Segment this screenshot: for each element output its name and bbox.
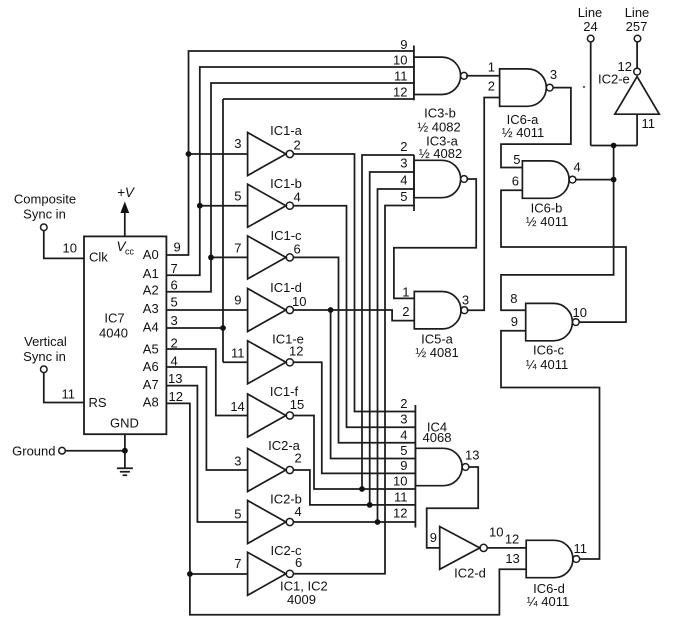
svg-text:11: 11 [62,387,76,402]
svg-text:½ 4082: ½ 4082 [419,146,462,161]
svg-text:3: 3 [171,313,178,328]
svg-text:9: 9 [400,458,407,473]
svg-text:10: 10 [393,53,407,68]
svg-text:13: 13 [465,448,479,463]
svg-text:10: 10 [573,305,587,320]
svg-text:Clk: Clk [89,250,108,265]
svg-text:IC1-f: IC1-f [270,384,299,399]
svg-text:6: 6 [512,174,519,189]
svg-text:2: 2 [402,304,409,319]
svg-text:3: 3 [400,412,407,427]
svg-text:9: 9 [430,530,437,545]
svg-text:A6: A6 [143,359,159,374]
svg-text:2: 2 [171,336,178,351]
svg-text:Line: Line [578,5,603,20]
svg-text:IC1-a: IC1-a [270,123,303,138]
svg-text:10: 10 [489,525,503,540]
svg-text:IC2-d: IC2-d [454,566,486,581]
svg-text:14: 14 [230,399,244,414]
svg-text:8: 8 [510,291,517,306]
svg-text:4040: 4040 [99,326,128,341]
svg-text:9: 9 [511,314,518,329]
svg-text:Line: Line [625,5,650,20]
svg-text:IC1-d: IC1-d [270,280,302,295]
svg-text:A8: A8 [143,395,159,410]
svg-text:1: 1 [402,285,409,300]
svg-text:A5: A5 [143,342,159,357]
svg-text:12: 12 [169,389,183,404]
svg-text:½ 4082: ½ 4082 [417,120,460,135]
svg-text:IC7: IC7 [104,311,124,326]
svg-text:A4: A4 [143,320,159,335]
svg-text:257: 257 [626,19,648,34]
svg-text:12: 12 [393,85,407,100]
svg-text:4: 4 [400,427,407,442]
svg-text:9: 9 [174,240,181,255]
svg-text:13: 13 [168,371,182,386]
svg-text:Sync in: Sync in [23,349,66,364]
svg-text:IC1-c: IC1-c [270,228,302,243]
svg-text:5: 5 [234,189,241,204]
svg-text:4068: 4068 [423,430,452,445]
svg-text:5: 5 [400,443,407,458]
svg-text:9: 9 [234,293,241,308]
svg-text:24: 24 [583,19,597,34]
svg-text:4: 4 [171,354,178,369]
svg-text:¼ 4011: ¼ 4011 [527,594,569,609]
svg-text:IC1-e: IC1-e [272,332,304,347]
svg-text:7: 7 [171,261,178,276]
svg-text:11: 11 [642,116,656,131]
svg-text:3: 3 [550,67,557,82]
svg-text:5: 5 [234,507,241,522]
svg-text:4: 4 [294,190,301,205]
svg-text:A7: A7 [143,377,159,392]
svg-text:RS: RS [89,395,107,410]
svg-text:IC2-a: IC2-a [268,438,301,453]
svg-text:cc: cc [125,247,135,257]
svg-text:IC2-c: IC2-c [270,543,302,558]
svg-text:13: 13 [505,551,519,566]
svg-text:A2: A2 [143,282,159,297]
svg-text:11: 11 [574,541,588,556]
svg-text:IC2-e: IC2-e [598,72,630,87]
svg-text:A3: A3 [143,301,159,316]
svg-text:4009: 4009 [287,592,316,607]
svg-text:12: 12 [393,506,407,521]
svg-text:3: 3 [462,293,469,308]
svg-text:2: 2 [294,138,301,153]
svg-text:IC6-c: IC6-c [533,343,565,358]
svg-text:IC1-b: IC1-b [270,176,302,191]
svg-text:2: 2 [400,396,407,411]
svg-text:11: 11 [231,346,245,361]
svg-text:Vertical: Vertical [24,334,67,349]
svg-text:7: 7 [234,556,241,571]
svg-text:4: 4 [400,173,407,188]
svg-text:5: 5 [171,295,178,310]
svg-text:10: 10 [393,474,407,489]
svg-text:1: 1 [488,60,495,75]
svg-text:4: 4 [574,160,581,175]
svg-text:½ 4011: ½ 4011 [502,125,544,140]
svg-text:12: 12 [505,532,519,547]
svg-text:Composite: Composite [14,192,76,207]
svg-text:¼ 4011: ¼ 4011 [526,357,568,372]
svg-text:5: 5 [513,152,520,167]
svg-text:15: 15 [290,397,304,412]
svg-text:6: 6 [294,242,301,257]
svg-text:3: 3 [234,136,241,151]
svg-text:11: 11 [394,69,408,84]
svg-text:Ground: Ground [12,444,55,459]
svg-text:5: 5 [400,189,407,204]
svg-text:A1: A1 [143,266,159,281]
svg-text:GND: GND [110,416,139,431]
svg-text:IC2-b: IC2-b [270,492,302,507]
svg-text:7: 7 [234,241,241,256]
svg-text:2: 2 [488,79,495,94]
svg-text:2: 2 [400,139,407,154]
svg-text:3: 3 [400,156,407,171]
svg-text:11: 11 [394,489,408,504]
svg-text:IC3-b: IC3-b [424,106,456,121]
svg-text:9: 9 [400,37,407,52]
svg-text:A0: A0 [143,247,159,262]
svg-text:+V: +V [117,185,136,200]
svg-text:½ 4011: ½ 4011 [526,214,568,229]
svg-text:½ 4081: ½ 4081 [415,345,458,360]
svg-text:6: 6 [171,277,178,292]
svg-text:10: 10 [63,241,77,256]
svg-text:Sync in: Sync in [23,207,66,222]
svg-text:10: 10 [292,294,306,309]
svg-text:3: 3 [234,454,241,469]
